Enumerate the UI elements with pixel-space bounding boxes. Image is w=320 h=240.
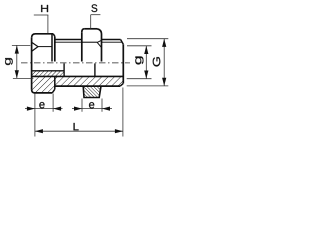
dimension e right: left arrow (pointing right) bbox=[74, 107, 82, 111]
dimension e left: outside tail right bbox=[53, 108, 62, 110]
nut: right face bbox=[101, 34, 103, 62]
left hex: bottom-right bevel (section) bbox=[52, 89, 55, 93]
dimension e left: label bbox=[39, 102, 44, 108]
thread end chamfer bbox=[121, 40, 124, 45]
dimension L: right extension line bbox=[122, 88, 124, 137]
left hex: right face (section part) bbox=[54, 76, 56, 89]
hatch region R3: main band (body wall) section bbox=[55, 76, 124, 86]
dimension S: leader vertical bbox=[90, 15, 92, 29]
dimension e right: outside tail left bbox=[72, 108, 82, 110]
section line B: band top bbox=[32, 75, 124, 77]
left hex: right face (upper half) bbox=[54, 36, 56, 61]
dimension e right: dimension line bbox=[82, 108, 102, 110]
dimension g left: top arrow bbox=[15, 45, 19, 53]
dimension G right: dimension line bbox=[163, 39, 165, 86]
dimension S: leader underline bbox=[91, 14, 101, 16]
hatch region R2: left hex lower block section bbox=[32, 76, 55, 93]
nut: thread runout triangle bbox=[97, 40, 101, 47]
hatch region R1: bore band between line A and line B bbox=[32, 71, 65, 77]
dimension G right: label bbox=[153, 57, 161, 66]
section line A: bore bbox=[32, 70, 65, 72]
dimension g left: bottom extension line bbox=[13, 77, 34, 79]
dimension e left: left arrow (pointing right) bbox=[27, 107, 35, 111]
thread major diameter line (left segment) bbox=[55, 39, 82, 41]
left hex: cone triangle on end face bbox=[32, 42, 38, 51]
dimension H: leader underline bbox=[34, 14, 49, 16]
dimension e right: right extension line bbox=[101, 99, 103, 112]
dimension G right: top arrow bbox=[162, 39, 166, 47]
thread major diameter line (right segment) bbox=[102, 39, 121, 41]
section tick 1: female thread end bbox=[63, 63, 65, 76]
dimension e right: label bbox=[89, 102, 94, 108]
dimension e left: outside tail left bbox=[25, 108, 35, 110]
dimension e right: outside tail right bbox=[102, 108, 112, 110]
left hex: top-left corner arc bbox=[32, 34, 36, 38]
dimension G right: bottom arrow bbox=[162, 78, 166, 86]
dimension g left: dimension line bbox=[16, 45, 18, 78]
nut (middle hex): left face bbox=[81, 32, 83, 61]
thread minor diameter thin line (left segment) bbox=[55, 41, 82, 43]
dimension g right: top arrow bbox=[144, 46, 148, 54]
nut: top flat bbox=[84, 28, 97, 30]
dimension g right: bottom extension line bbox=[127, 78, 152, 80]
dimension e right: left extension line bbox=[81, 99, 83, 112]
dimension S: label bbox=[91, 4, 97, 12]
nut: internal thread line bbox=[82, 41, 97, 43]
dimension H: leader vertical bbox=[47, 15, 49, 33]
left hex: inner chamfer line bbox=[51, 34, 53, 61]
centerline (axis, dash-dot) bbox=[21, 62, 130, 64]
dimension L: right arrow bbox=[115, 129, 123, 133]
section tick 2 bbox=[94, 63, 96, 76]
dimension e left: dimension line bbox=[35, 108, 53, 110]
nut: top-left corner arc bbox=[82, 29, 85, 33]
left hex: left end face bbox=[31, 38, 33, 90]
left hex: top flat bbox=[36, 33, 54, 35]
dimension g left: label bbox=[5, 58, 12, 65]
thread end bottom bevel (section) bbox=[120, 83, 123, 86]
left hex: top-right bevel bbox=[53, 34, 55, 37]
dimension g left: top extension line bbox=[12, 44, 30, 46]
dimension L: label bbox=[74, 123, 79, 130]
dimension e right: right arrow (pointing left) bbox=[102, 107, 110, 111]
nut: top-right corner arc bbox=[97, 29, 102, 34]
dimension g right: top extension line bbox=[127, 45, 152, 47]
nut section trapezoid outline bbox=[83, 86, 101, 97]
hatch region R4: nut cross-section trapezoid bbox=[83, 86, 101, 97]
dimension e left: right arrow (pointing left) bbox=[53, 107, 61, 111]
dimension e left: left extension line (shared with L) bbox=[34, 94, 36, 137]
section band bottom: thread major mirror bbox=[55, 85, 120, 87]
dimension g right: bottom arrow bbox=[144, 71, 148, 79]
left hex: bottom-left corner arc (section) bbox=[32, 89, 35, 93]
dimension L: dimension line bbox=[35, 130, 123, 132]
dimension G right: bottom extension line bbox=[127, 85, 169, 87]
dimension G right: top extension line bbox=[127, 38, 168, 40]
dimension g right: dimension line bbox=[145, 46, 147, 79]
dimension e left: right extension line bbox=[52, 94, 54, 112]
dimension g right: label bbox=[135, 56, 143, 64]
left hex: cone line to chamfer bbox=[38, 46, 52, 48]
thread end face bbox=[122, 44, 124, 83]
dimension L: left arrow bbox=[35, 129, 43, 133]
thread minor diameter thin line (right segment) bbox=[102, 41, 123, 43]
dimension H: label bbox=[41, 5, 48, 12]
left hex: bottom flat (section) bbox=[35, 92, 53, 94]
dimension g left: bottom arrow bbox=[15, 70, 19, 78]
